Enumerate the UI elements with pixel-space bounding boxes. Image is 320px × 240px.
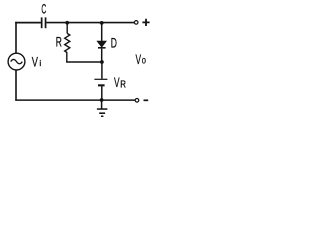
diode D triangle (anode, pointing down) — [97, 41, 106, 47]
resistor R zigzag — [65, 33, 70, 52]
wire middle horizontal (R bottom to battery/diode node) — [66, 61, 102, 63]
node D (bottom wire / ground junction) — [100, 98, 104, 102]
battery VR short plate (-) — [98, 84, 105, 86]
wire bottom horizontal — [15, 99, 135, 101]
wire resistor bottom lead — [66, 53, 68, 62]
svg-text:V: V — [32, 54, 39, 70]
wire diode anode lead — [101, 23, 103, 41]
output terminal - (open circle) — [135, 99, 139, 103]
svg-text:V: V — [136, 51, 142, 67]
svg-text:i: i — [39, 58, 41, 68]
wire left rail lower — [15, 70, 17, 101]
ground bar 1 — [97, 108, 108, 110]
wire ground stem — [101, 100, 103, 109]
ground bar 3 — [101, 116, 103, 118]
wire resistor top lead — [66, 23, 68, 34]
wire top horizontal (capacitor to + terminal) — [46, 22, 134, 24]
svg-text:o: o — [142, 55, 146, 66]
output terminal + (open circle) — [134, 21, 138, 25]
node B (top wire to diode) — [100, 21, 104, 25]
label - — [144, 99, 149, 101]
node C (diode / R / battery junction) — [100, 60, 104, 64]
wire battery bottom lead — [101, 86, 103, 100]
svg-text:V: V — [114, 75, 120, 90]
svg-text:R: R — [120, 79, 126, 90]
wire left rail upper — [15, 22, 17, 54]
node A (top wire to resistor) — [65, 21, 69, 25]
wire diode cathode lead — [101, 49, 103, 62]
diode D cathode bar — [98, 47, 106, 49]
ground bar 2 — [99, 112, 105, 114]
capacitor C plates — [41, 17, 43, 28]
wire top-left horizontal (left rail to capacitor) — [15, 22, 41, 24]
AC source sine wave — [11, 59, 23, 63]
AC source Vi circle — [8, 53, 25, 70]
svg-text:R: R — [56, 33, 62, 49]
label + — [142, 19, 149, 26]
svg-text:C: C — [41, 0, 46, 16]
battery VR long plate (+) — [94, 79, 107, 80]
svg-text:D: D — [111, 34, 117, 50]
wire battery top lead — [101, 62, 103, 79]
